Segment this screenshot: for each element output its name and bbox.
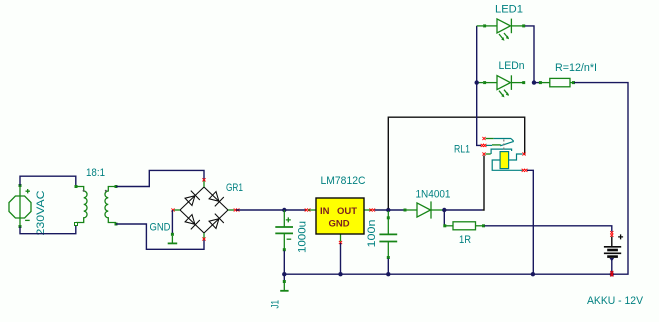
svg-text:GND: GND bbox=[329, 219, 350, 230]
wire 1000u to bottom rail bbox=[283, 251, 285, 275]
svg-text:230VAC: 230VAC bbox=[35, 190, 47, 235]
diode D1 1N4001 bbox=[404, 201, 446, 218]
wire regulator GND to bottom rail bbox=[340, 243, 342, 274]
pin x bridge top bbox=[202, 178, 205, 181]
wire source top to transformer bbox=[20, 176, 76, 186]
wire transformer bottom to bridge bottom bbox=[116, 224, 204, 249]
svg-text:1N4001: 1N4001 bbox=[416, 188, 451, 200]
svg-text:LM7812C: LM7812C bbox=[321, 175, 366, 187]
wire bridge left to ground bbox=[171, 210, 173, 233]
svg-text:RL1: RL1 bbox=[454, 143, 470, 155]
svg-text:18:1: 18:1 bbox=[86, 167, 105, 179]
bridge rectifier GR1 bbox=[174, 181, 234, 239]
svg-text:GR1: GR1 bbox=[226, 182, 243, 194]
AC source V1 230VAC bbox=[9, 184, 31, 228]
wire bottom rail and right riser to resistor bbox=[284, 83, 628, 275]
node junction 100n bbox=[386, 208, 390, 212]
wire LED left rail to relay common bbox=[477, 26, 481, 145]
svg-text:R=12/n*I: R=12/n*I bbox=[555, 62, 597, 74]
wire OUT to diode bbox=[375, 209, 406, 211]
wire bridge right to regulator IN bbox=[236, 209, 307, 211]
wire source bottom to transformer bbox=[20, 224, 76, 234]
svg-text:GND: GND bbox=[150, 222, 171, 234]
pin xx regulator IN bbox=[305, 208, 311, 211]
wire LEDn right to resistor bbox=[534, 82, 540, 84]
svg-text:100n: 100n bbox=[366, 220, 378, 248]
svg-text:1000u: 1000u bbox=[297, 221, 309, 253]
node junction LEDn right bbox=[532, 80, 536, 84]
node junction rail relay bbox=[531, 272, 535, 276]
node junction rail battery bbox=[610, 272, 614, 276]
regulator U1 LM7812C bbox=[308, 198, 372, 242]
wire junction down to 1R bbox=[443, 210, 445, 226]
LEDn bbox=[477, 75, 526, 97]
node junction rail J1 bbox=[282, 272, 286, 276]
pin xx coil minus bbox=[522, 169, 528, 172]
bridge pins bbox=[203, 181, 205, 187]
pin xx battery minus bbox=[610, 271, 613, 277]
wire transformer top to bridge top bbox=[116, 170, 204, 186]
actuator dashed link bbox=[503, 140, 505, 153]
pin x NC contact bbox=[482, 137, 485, 140]
NO contact bbox=[486, 153, 491, 155]
resistor R1 1R bbox=[443, 222, 485, 230]
NC contact bbox=[486, 138, 494, 140]
diode D-upper-left (L to T) bbox=[184, 191, 200, 207]
svg-text:IN: IN bbox=[320, 206, 330, 217]
svg-text:J1: J1 bbox=[270, 300, 282, 309]
diode D-lower-right (B to R) bbox=[208, 214, 224, 230]
pin x NO contact bbox=[482, 152, 485, 155]
wire battery to bottom rail bbox=[611, 259, 613, 274]
pin xx regulator OUT bbox=[369, 208, 375, 211]
diode D-lower-left (L to B) bbox=[184, 213, 200, 229]
battery AKKU 12V bbox=[604, 231, 623, 261]
diode D-upper-right (T to R) bbox=[208, 190, 224, 206]
pin x coil plus bbox=[522, 152, 525, 155]
relay RL1 bbox=[481, 137, 528, 172]
svg-text:1R: 1R bbox=[459, 234, 471, 246]
node junction diode/1R/relay bbox=[442, 208, 446, 212]
wire top rail (OUT up, across, down to relay coil) bbox=[388, 117, 524, 208]
wire junction to relay NO contact bbox=[444, 209, 482, 211]
pin xx common bbox=[481, 144, 487, 147]
pin x bridge left bbox=[171, 208, 174, 211]
node junction rail regulator GND bbox=[338, 272, 342, 276]
transformer TR1 18:1 bbox=[75, 185, 118, 226]
common arm bbox=[486, 144, 492, 146]
wire 1R to battery plus bbox=[485, 226, 612, 232]
pin x bridge bottom bbox=[202, 237, 205, 240]
pin xx bridge right bbox=[234, 208, 240, 211]
svg-text:LEDn: LEDn bbox=[499, 60, 525, 72]
resistor R2 R=12/n*I bbox=[539, 78, 575, 86]
wire LED1 right to rail bbox=[525, 26, 534, 83]
node junction rail 100n bbox=[386, 272, 390, 276]
ground GND symbol bbox=[168, 233, 178, 244]
node junction LEDn left bbox=[475, 80, 479, 84]
capacitor C1 1000u bbox=[275, 210, 293, 251]
svg-text:LED1: LED1 bbox=[495, 4, 523, 16]
capacitor C2 100n bbox=[379, 211, 397, 259]
svg-text:AKKU - 12V: AKKU - 12V bbox=[587, 295, 644, 307]
connector J1 bbox=[280, 274, 288, 291]
relay coil bbox=[500, 152, 509, 169]
svg-text:OUT: OUT bbox=[337, 206, 357, 217]
node junction 1000u bbox=[282, 208, 286, 212]
pin x regulator GND bbox=[339, 241, 342, 244]
coil right pin to top rail bbox=[509, 154, 523, 160]
wire relay coil to bottom rail bbox=[527, 170, 533, 274]
coil left pin to ground side bbox=[492, 160, 522, 170]
wire 100n to bottom rail bbox=[387, 259, 389, 275]
LED1 bbox=[477, 19, 526, 41]
